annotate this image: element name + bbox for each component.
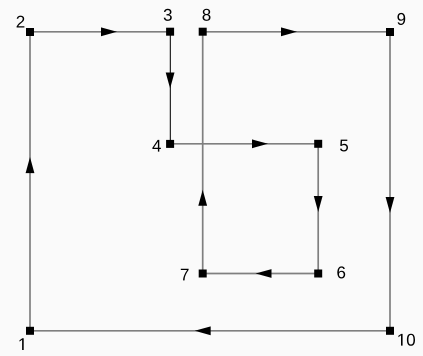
wire edge 9->10 — [389, 32, 391, 331]
node 6 — [314, 270, 322, 278]
arrowhead edge 8->9 — [281, 27, 297, 36]
node 7 — [199, 270, 207, 278]
wire edge 10->1 — [30, 330, 390, 332]
arrowhead edge 9->10 — [386, 197, 395, 213]
wire edge 1->2 — [29, 32, 31, 331]
node 9 — [386, 28, 394, 36]
label node 9 — [397, 13, 405, 25]
node 5 — [314, 140, 322, 148]
wire edge 2->3 — [30, 31, 170, 33]
node 1 — [26, 327, 34, 335]
label node 4 — [152, 140, 161, 152]
arrowhead edge 7->8 — [198, 190, 207, 206]
label node 1 — [20, 338, 24, 350]
node 4 — [166, 140, 174, 148]
arrowhead edge 2->3 — [101, 27, 117, 36]
arrowhead edge 3->4 — [166, 73, 175, 89]
label node 7 — [181, 269, 189, 281]
arrowhead edge 1->2 — [26, 157, 35, 173]
node 2 — [26, 28, 34, 36]
wire edge 3->4 — [169, 32, 171, 144]
label node 3 — [164, 9, 172, 21]
label node 2 — [17, 16, 25, 28]
label node 8 — [203, 9, 211, 21]
wire edge 6->7 — [203, 273, 319, 275]
arrowhead edge 5->6 — [314, 196, 323, 212]
label node 5 — [340, 140, 348, 152]
wire edge 8->9 — [203, 31, 391, 33]
arrowhead edge 6->7 — [256, 269, 272, 278]
arrowhead edge 10->1 — [195, 326, 211, 335]
wire edge 5->6 — [317, 144, 319, 274]
wire edge 4->5 — [170, 143, 318, 145]
arrowhead edge 4->5 — [252, 139, 268, 148]
node 8 — [199, 28, 207, 36]
node 3 — [166, 28, 174, 36]
node 10 — [386, 327, 394, 335]
wire edge 7->8 — [202, 32, 204, 274]
label node 6 — [337, 266, 345, 278]
label node 10 — [398, 334, 415, 346]
